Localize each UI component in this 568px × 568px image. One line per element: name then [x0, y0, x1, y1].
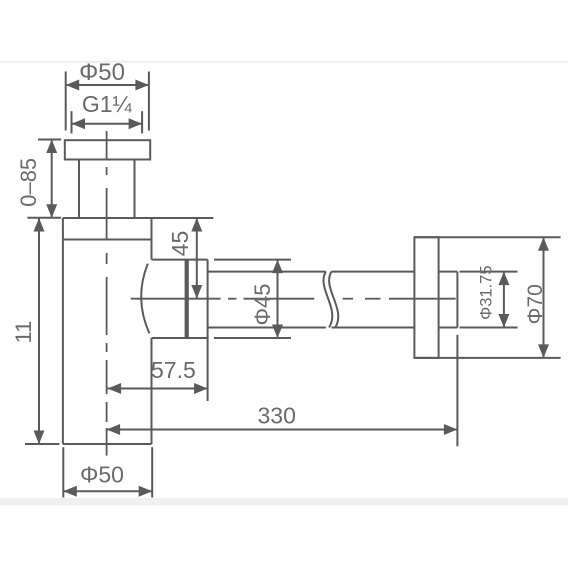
- svg-text:11: 11: [11, 321, 36, 344]
- svg-text:45: 45: [167, 231, 193, 257]
- svg-text:330: 330: [258, 403, 296, 429]
- svg-text:G1¼: G1¼: [82, 91, 133, 117]
- svg-text:Φ70: Φ70: [524, 284, 547, 324]
- svg-text:Φ50: Φ50: [79, 59, 125, 86]
- svg-text:Φ31.75: Φ31.75: [478, 265, 496, 319]
- svg-text:57.5: 57.5: [151, 357, 196, 383]
- svg-text:0–85: 0–85: [16, 158, 41, 207]
- svg-text:Φ45: Φ45: [250, 283, 275, 325]
- svg-text:Φ50: Φ50: [80, 462, 124, 488]
